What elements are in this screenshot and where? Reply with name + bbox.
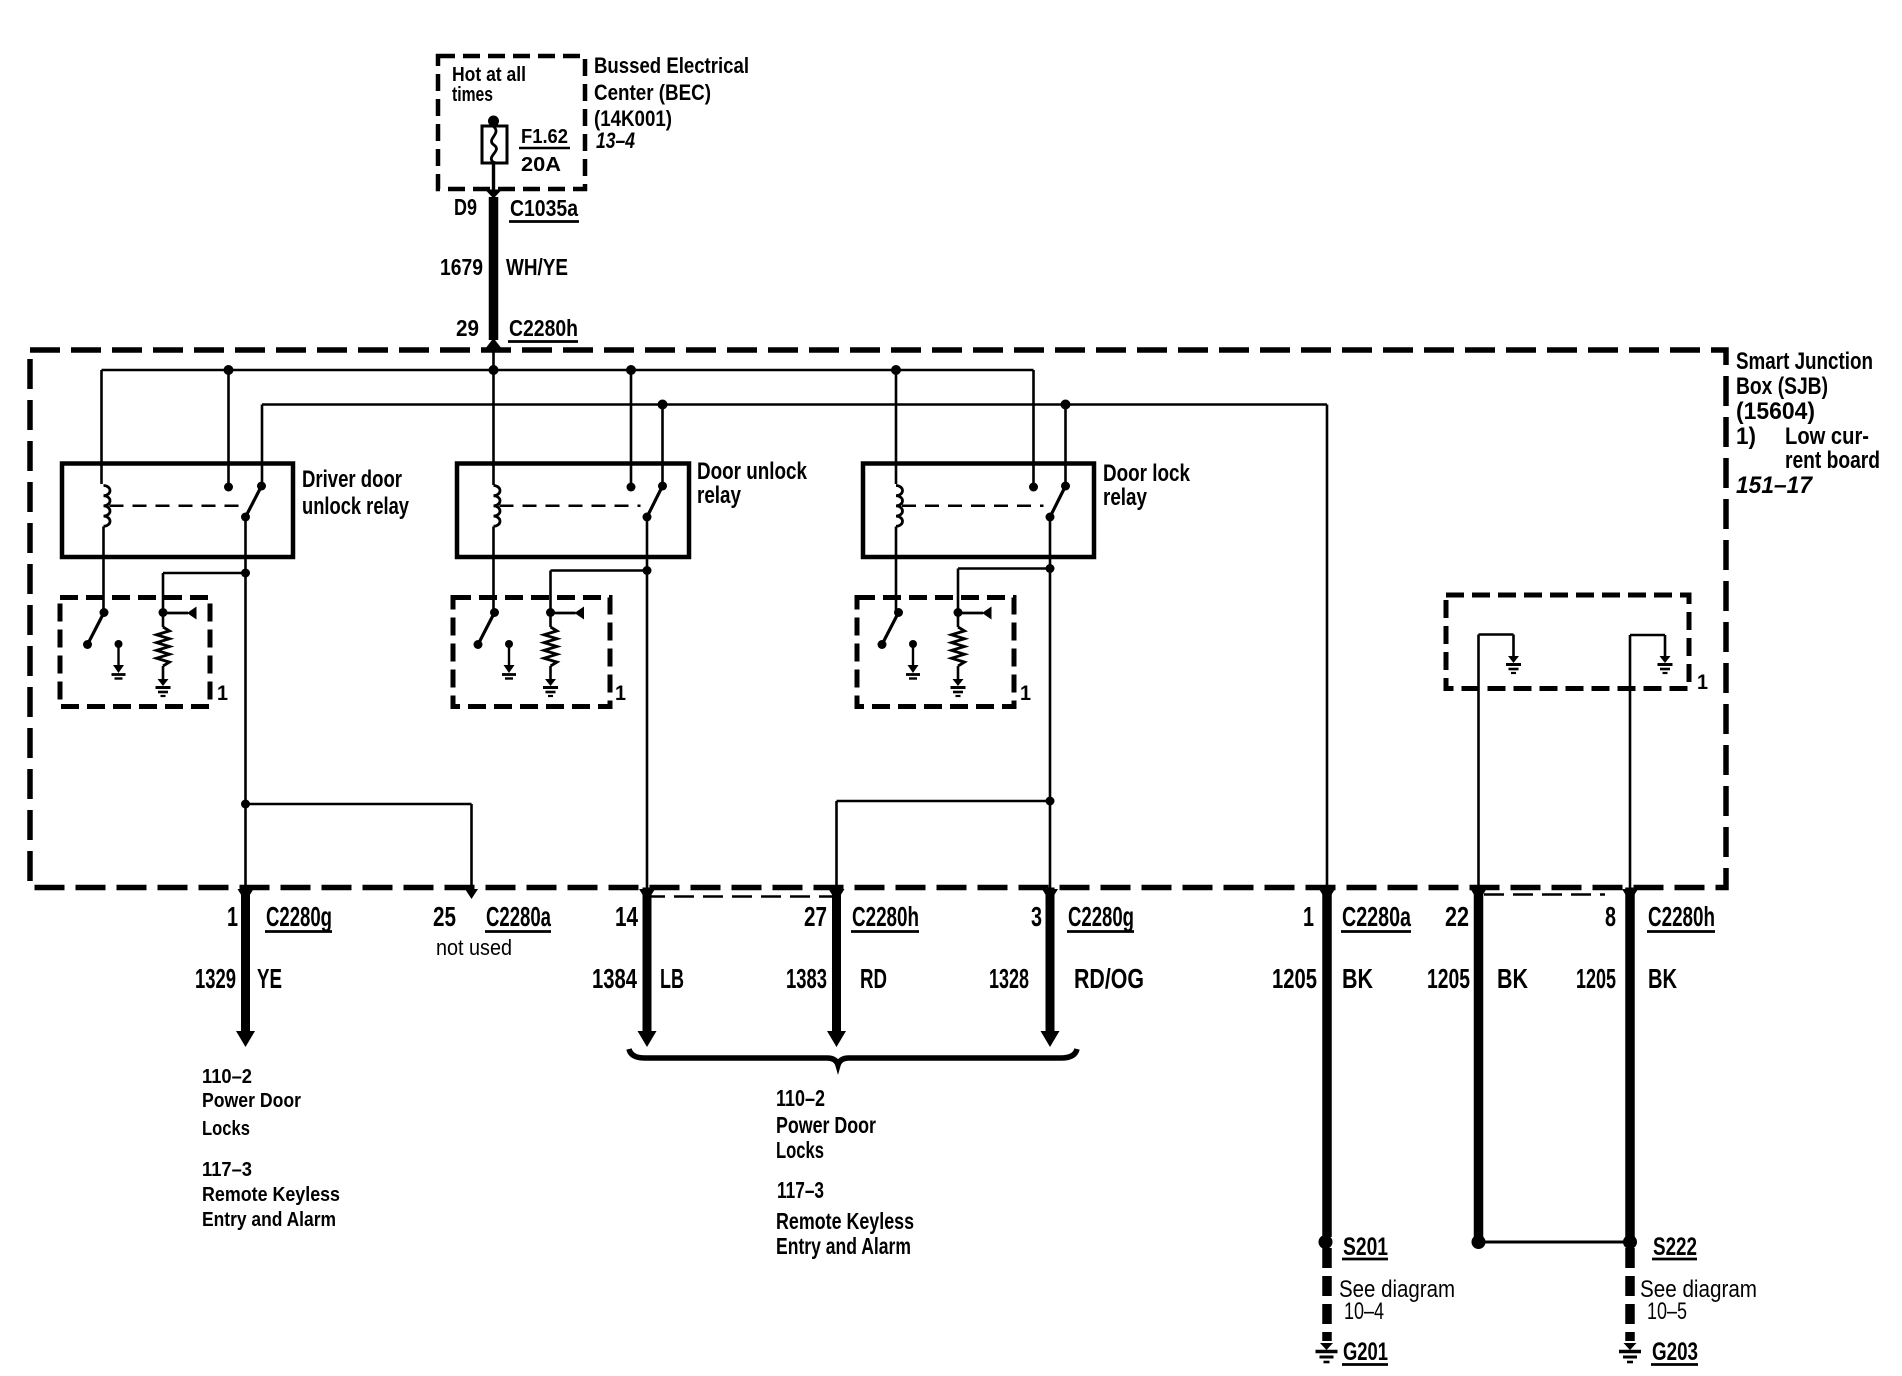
switch driver door blade [100,608,109,617]
svg-text:110–2: 110–2 [202,1066,252,1088]
resistor door lock [957,613,960,627]
svg-text:YE: YE [257,963,282,994]
wire relay1 output to door switch resistor [241,569,250,578]
svg-text:10–4: 10–4 [1344,1298,1384,1325]
ground G201 [1320,1343,1333,1350]
svg-text:25: 25 [433,901,456,932]
node junction to pin 27 [1046,797,1055,806]
wire relay1 output down to pin 1 [244,573,247,888]
relay door unlock relay box [457,464,689,558]
switch door lock resistor contact arm [954,608,963,617]
resistor driver door [162,613,165,627]
wire drop bus B to relay2 blade [661,405,664,486]
wire splice link S222 [1472,1235,1486,1249]
wire left ground hook [1477,635,1480,888]
wire relay3 output down to pin 3 [1049,573,1052,888]
svg-text:Remote Keyless: Remote Keyless [776,1208,914,1234]
node splice S222 [1623,1235,1637,1249]
svg-text:13–4: 13–4 [596,128,635,153]
wire 1383 RD with output arrow [832,888,841,1033]
svg-text:C2280h: C2280h [509,315,578,341]
svg-text:BK: BK [1648,963,1677,994]
relay driver door unlock relay blade [257,482,266,491]
svg-text:1): 1) [1736,423,1756,450]
connector arrow pin 8 C2280h [1622,889,1638,902]
relay door lock relay box [863,464,1094,558]
wire relay2 coil feed [492,370,495,485]
connector C2280h arrow (pin 29) [485,338,502,349]
svg-text:1: 1 [1020,682,1031,705]
svg-text:G201: G201 [1343,1338,1388,1366]
svg-text:1328: 1328 [989,963,1029,994]
ground driver door resistor [158,679,169,686]
svg-text:29: 29 [456,315,479,341]
node splice S201 [1319,1235,1333,1249]
wire 1328 RD/OG with output arrow [1046,888,1055,1033]
relay door unlock relay output wire [646,517,649,573]
switch door unlock resistor contact arm [546,608,555,617]
svg-text:1205: 1205 [1272,963,1317,994]
svg-text:Locks: Locks [776,1137,824,1163]
wire bus B (unlock feed) [262,403,1327,406]
relay driver door unlock relay coil [104,486,111,527]
relay door unlock relay blade [658,482,667,491]
svg-text:unlock relay: unlock relay [302,493,409,520]
relay door lock relay coil [896,486,902,527]
svg-text:D9: D9 [454,194,477,220]
door lock switch door unlock dashed box [453,598,610,707]
svg-text:22: 22 [1445,901,1469,932]
svg-text:(15604): (15604) [1736,398,1815,425]
connector arrow pin 1 C2280a [1319,889,1335,902]
relay driver door unlock relay box [62,464,293,558]
wire branch to pin 27 [837,800,1051,803]
relay door lock relay internal dashed link [902,505,1044,508]
relay driver door unlock relay output wire [244,517,247,573]
wire bus A right drop to relay3 contact [1032,370,1035,486]
svg-text:1: 1 [217,682,228,705]
connector arrow pin 25 (not used) [465,889,478,899]
relay door lock relay blade [1061,482,1070,491]
svg-text:1: 1 [1303,901,1314,932]
svg-text:G203: G203 [1652,1338,1698,1366]
Bussed Electrical Center dashed box [438,56,585,189]
wire relay2 output down to pin 14 [646,573,649,888]
wire drop bus A to relay2 fixed contact [630,370,633,487]
svg-text:1205: 1205 [1576,963,1616,994]
SJB low-current board edge jog 14-27 [645,895,838,898]
SJB low-current board edge jog 22-8 [1484,893,1605,896]
svg-text:C2280h: C2280h [1648,901,1715,932]
connector arrow pin 3 C2280g [1042,889,1058,902]
switch door lock center contact [909,640,917,648]
svg-text:Hot at all: Hot at all [452,64,526,86]
svg-text:C2280g: C2280g [1068,901,1134,932]
svg-text:Driver door: Driver door [302,466,402,493]
svg-text:Door unlock: Door unlock [697,458,807,485]
relay door unlock relay fixed contact [627,483,636,492]
brace power door locks group [629,1049,1077,1065]
door lock switch driver door dashed box [60,598,210,707]
switch door lock blade [894,608,903,617]
wire bus B right drop to SJB pin 1 [1326,405,1329,888]
svg-text:151–17: 151–17 [1736,472,1814,499]
fuse F1.62 20A [482,126,507,163]
wire bus A left drop to relay1 coil [100,370,103,484]
wire bus A (lock feed) [102,369,1034,372]
svg-text:Power Door: Power Door [776,1112,876,1138]
wire bus B left drop to relay1 blade [261,405,264,487]
svg-text:not used: not used [436,935,512,960]
svg-text:times: times [452,84,493,106]
wire drop bus A to relay1 fixed contact [227,370,230,487]
wire 1384 LB with output arrow [643,888,652,1033]
svg-text:C2280g: C2280g [266,901,332,932]
svg-text:14: 14 [615,901,639,932]
connector arrow pin 14 [639,889,655,902]
svg-text:Door lock: Door lock [1103,460,1190,487]
svg-text:10–5: 10–5 [1647,1298,1687,1325]
wire fuse to box bottom [492,161,495,190]
relay door lock relay coil wire through box [895,527,898,614]
svg-text:WH/YE: WH/YE [506,254,568,280]
svg-text:3: 3 [1031,901,1042,932]
connector arrow pin 22 [1471,889,1487,902]
svg-text:Entry and Alarm: Entry and Alarm [202,1209,336,1231]
svg-text:117–3: 117–3 [777,1177,824,1203]
relay driver door unlock relay coil wire through box [102,527,105,614]
Smart Junction Box (SJB) dashed enclosure [30,350,1726,888]
svg-text:1205: 1205 [1427,963,1470,994]
wire drop bus B to relay3 blade [1064,405,1067,486]
switch driver door center contact [115,640,123,648]
wire S222 to G203 (dashed) [1625,1248,1635,1341]
relay door unlock relay coil [494,486,500,527]
wire 1205 BK (right) [1625,888,1635,1238]
node bus A junction dots [224,365,234,375]
svg-text:RD: RD [860,963,887,994]
svg-text:1384: 1384 [592,963,638,994]
svg-text:110–2: 110–2 [776,1085,825,1111]
svg-text:C2280a: C2280a [1342,901,1411,932]
wire relay3 coil feed [895,370,898,484]
switch driver door resistor contact arm [159,608,168,617]
connector C1035a arrow (pin D9) [485,190,502,199]
svg-text:1: 1 [1697,671,1708,694]
node fuse feed dot [488,116,499,127]
svg-text:Low cur-: Low cur- [1785,423,1869,450]
svg-text:Box (SJB): Box (SJB) [1736,373,1828,400]
svg-text:relay: relay [697,482,741,509]
switch door unlock center contact [505,640,513,648]
svg-text:Smart Junction: Smart Junction [1736,348,1873,375]
relay door unlock relay coil wire through box [492,527,495,614]
svg-text:117–3: 117–3 [202,1159,252,1181]
ground door lock resistor [953,679,964,686]
node bus B junction dots [658,400,668,410]
svg-text:S201: S201 [1343,1233,1388,1261]
wire right ground hook [1629,635,1632,888]
svg-text:BK: BK [1497,963,1528,994]
svg-text:1383: 1383 [786,963,827,994]
svg-text:1329: 1329 [195,963,236,994]
relay door lock relay fixed contact [1029,483,1038,492]
svg-text:F1.62: F1.62 [521,126,568,148]
connector arrow pin 1 C2280g [238,889,254,902]
svg-text:8: 8 [1605,901,1616,932]
svg-text:S222: S222 [1653,1233,1697,1261]
ground G203 [1624,1343,1637,1350]
svg-text:1: 1 [615,682,626,705]
svg-text:relay: relay [1103,484,1147,511]
svg-text:Locks: Locks [202,1118,250,1140]
svg-text:Remote Keyless: Remote Keyless [202,1184,340,1206]
wire 1329 YE with output arrow [241,888,250,1033]
wire relay2 output to door switch resistor [643,566,652,575]
svg-text:C1035a: C1035a [510,195,578,221]
switch door unlock blade [490,608,499,617]
wire 1679 WH/YE (thick) [489,197,499,340]
wire 1205 BK (left) [1322,888,1332,1238]
svg-text:Center (BEC): Center (BEC) [594,80,711,105]
connector arrow pin 27 C2280h [829,889,845,902]
svg-text:C2280a: C2280a [486,901,551,932]
wire feed from pin29 to bus A [492,350,495,370]
ground left hook [1508,656,1519,663]
relay door lock relay output wire [1049,517,1052,573]
svg-text:20A: 20A [521,154,561,176]
relay driver door unlock relay internal dashed link [110,505,240,508]
svg-text:LB: LB [660,963,684,994]
relay door unlock relay internal dashed link [500,505,641,508]
svg-text:1: 1 [227,901,238,932]
svg-text:BK: BK [1342,963,1373,994]
door lock switch door lock dashed box [857,598,1014,707]
svg-text:Bussed Electrical: Bussed Electrical [594,53,749,78]
wire 1205 BK (middle) [1474,888,1484,1243]
node junction to pin 25 [241,800,250,809]
relay driver door unlock relay fixed contact [224,483,233,492]
svg-text:Power Door: Power Door [202,1090,301,1112]
SJB internal ground module dashed box [1446,595,1689,689]
svg-text:Entry and Alarm: Entry and Alarm [776,1233,911,1259]
wire branch to pin 25 (not used) [246,803,472,806]
svg-text:C2280h: C2280h [852,901,919,932]
wire S201 to G201 (dashed) [1322,1248,1332,1341]
resistor door unlock [549,613,552,627]
svg-text:27: 27 [804,901,827,932]
svg-text:RD/OG: RD/OG [1074,963,1144,994]
svg-text:1679: 1679 [440,254,483,280]
ground door unlock resistor [545,679,556,686]
svg-text:rent board: rent board [1785,447,1880,474]
ground right hook [1660,656,1671,663]
wire relay3 output to door switch resistor [1046,564,1055,573]
